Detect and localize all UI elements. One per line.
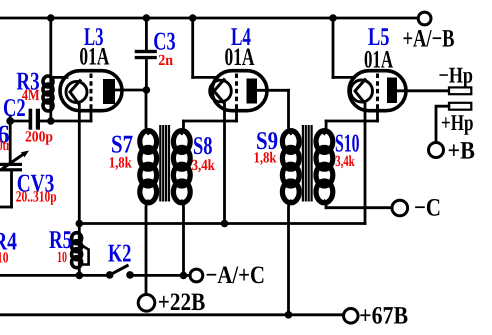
wire L3 grid wire to C2/R3: [51, 120, 91, 123]
node S9 bottom junction: [285, 311, 293, 319]
svg-text:−Hp: −Hp: [439, 63, 474, 88]
wire L4 grid wire to S8: [184, 120, 237, 123]
node R5 bottom: [76, 272, 84, 280]
tube L3: [60, 71, 122, 111]
svg-text:01A: 01A: [79, 44, 109, 71]
wire L4 filament drop: [191, 18, 194, 77]
node top rail junction R3: [47, 14, 55, 22]
svg-text:01A: 01A: [225, 44, 255, 71]
inductor S8 secondary: [173, 121, 190, 275]
svg-text:2n: 2n: [158, 52, 173, 69]
node filament rail L4 leg: [221, 220, 229, 228]
wire filament L3 top lead: [51, 76, 67, 79]
wire -A rail left: [0, 274, 110, 277]
svg-text:K2: K2: [108, 238, 131, 267]
node R3/C2 junction: [47, 117, 55, 125]
svg-text:−C: −C: [414, 194, 441, 221]
resistor R3: [43, 76, 53, 121]
node C2 left junction: [6, 117, 14, 125]
capacitor CV3 variable: [0, 121, 29, 207]
resistor R5 rheostat: [72, 224, 89, 276]
svg-text:1,8k: 1,8k: [254, 150, 277, 167]
terminal +Hp blade: [449, 103, 471, 110]
svg-text:3,4k: 3,4k: [335, 153, 355, 170]
wire L5 grid wire to S10: [326, 120, 377, 123]
wire top rail +A: [0, 17, 418, 20]
svg-text:+67B: +67B: [359, 302, 408, 329]
svg-text:200p: 200p: [25, 129, 53, 146]
svg-text:C2: C2: [3, 93, 26, 122]
terminal +67B: [344, 309, 359, 324]
node top rail junction L4 filament: [189, 14, 197, 22]
transformer S7/S8 core: [159, 125, 171, 202]
svg-text:+22B: +22B: [158, 289, 206, 316]
wire L4 anode to S9: [253, 89, 289, 92]
capacitor C3: [135, 18, 157, 90]
svg-text:−A/+C: −A/+C: [206, 262, 266, 289]
wire rail to R3 top: [49, 18, 52, 77]
svg-text:+B: +B: [448, 137, 475, 164]
transformer S9/S10 core: [302, 125, 314, 202]
node filament rail R5: [76, 220, 84, 228]
wire L3 filament leg: [78, 105, 81, 224]
svg-text:20..310p: 20..310p: [16, 188, 57, 205]
inductor S7 primary: [140, 90, 157, 294]
wire L5 grid lead: [376, 109, 379, 121]
svg-text:1,8k: 1,8k: [109, 154, 132, 171]
wire L5 anode to -Hp blade: [394, 89, 449, 92]
terminal +B: [429, 143, 444, 158]
node top rail junction C3: [143, 14, 151, 22]
wire L5 filament drop: [332, 18, 335, 77]
terminal -A/+C: [190, 269, 203, 282]
svg-text:+Hp: +Hp: [441, 110, 474, 135]
wire filament rail: [79, 222, 365, 225]
inductor S10 secondary: [316, 121, 333, 208]
svg-text:3,4k: 3,4k: [192, 157, 216, 174]
wire K2 to -A/+C: [130, 274, 190, 277]
wire L3 anode to C3 node: [110, 89, 146, 92]
wire +Hp to +B: [436, 106, 449, 142]
wire L4 grid lead: [235, 109, 238, 121]
inductor S9 primary: [282, 90, 299, 314]
wire -C net: [326, 206, 392, 209]
terminal -C: [392, 200, 408, 216]
terminal +A/-B: [418, 12, 431, 25]
wire L4 filament leg: [223, 104, 226, 224]
svg-text:10: 10: [0, 249, 9, 266]
svg-text:+A/−B: +A/−B: [403, 26, 455, 53]
terminal +22B: [138, 295, 155, 312]
wire L3 grid lead: [90, 109, 93, 121]
node top rail junction L5 filament: [329, 14, 337, 22]
svg-text:S8: S8: [193, 131, 213, 160]
terminal -Hp blade: [449, 87, 471, 94]
wire L5 filament leg: [364, 104, 367, 224]
tube L5: [349, 71, 406, 111]
switch K2: [106, 265, 134, 279]
node S8 bottom junction: [180, 272, 188, 280]
svg-text:10: 10: [57, 249, 67, 266]
node C3 bottom / S7 / anode junction: [143, 86, 151, 94]
capacitor C2: [10, 109, 51, 130]
tube L4: [210, 71, 267, 111]
wire bottom rail +67B: [0, 313, 344, 316]
